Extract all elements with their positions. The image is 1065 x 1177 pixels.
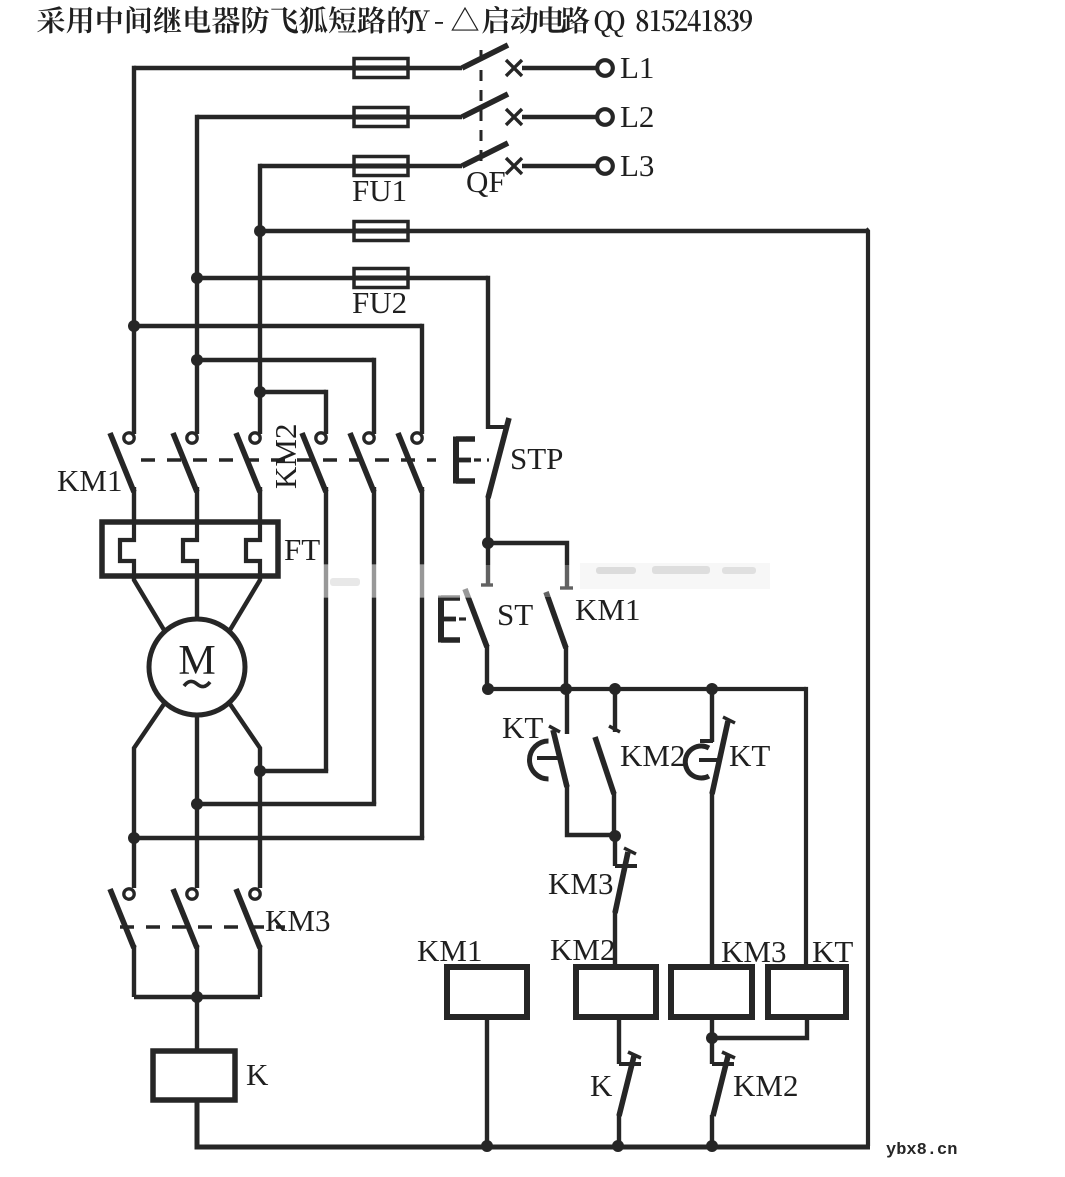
label KM2 rotated (268, 424, 303, 489)
label FU2 (352, 285, 407, 320)
coil KM3 (671, 967, 752, 1017)
contact KM1 aux (546, 588, 573, 689)
wire motor to left leg (134, 704, 164, 888)
label STP (510, 441, 563, 476)
svg-text:KM2: KM2 (620, 738, 685, 773)
label ST (497, 597, 533, 632)
terminal circle L3 (597, 158, 613, 174)
contactor KM1 main contact pole 1 (110, 433, 134, 524)
contact row linkage dashed line (141, 458, 436, 461)
svg-text:FU2: FU2 (352, 285, 407, 320)
svg-text:ybx8.cn: ybx8.cn (886, 1141, 957, 1160)
thermal relay FT heater element pole 1 (120, 524, 134, 578)
node junction right leg y771 (254, 765, 266, 777)
wire row5 to control drop (197, 276, 488, 429)
label L3 (620, 148, 654, 183)
fuse FU1 pole 3 (354, 157, 408, 176)
wire to relay K coil (195, 997, 199, 1051)
wire KT coil down (712, 1017, 807, 1038)
label K NC (590, 1068, 613, 1103)
contactor KM3 contact pole 2 (173, 889, 197, 997)
node bottom bus KM1 (481, 1140, 493, 1152)
thermal relay FT heater element pole 3 (246, 524, 260, 578)
label KM2 aux (620, 738, 685, 773)
relay K coil (153, 1051, 235, 1100)
terminal circle L1 (597, 60, 613, 76)
svg-text:KM3: KM3 (265, 903, 330, 938)
contactor KM3 contact pole 3 (236, 889, 260, 997)
label KT right (729, 738, 770, 773)
wire jumper y804 (197, 802, 376, 806)
breaker QF linkage dashed line (480, 50, 483, 162)
label FU1 (352, 173, 407, 208)
svg-text:L3: L3 (620, 148, 654, 183)
thermal relay FT heater element pole 2 (183, 524, 197, 578)
svg-text:STP: STP (510, 441, 563, 476)
node bus at KM1 aux (560, 683, 572, 695)
wire FT to motor middle (195, 576, 199, 620)
wire K coil to bottom bus (197, 1100, 870, 1147)
node junction left leg y838 (128, 832, 140, 844)
pushbutton ST (441, 585, 493, 689)
node junction row8 on L3 column (254, 386, 266, 398)
wire KM2 pole3 drop (420, 487, 424, 838)
svg-text:QF: QF (466, 164, 506, 199)
node bottom bus KM2NC (706, 1140, 718, 1152)
svg-text:KM2: KM2 (550, 932, 615, 967)
label FT (284, 532, 320, 567)
fuse FU1 pole 2 (354, 108, 408, 127)
motor M circle (149, 619, 245, 715)
breaker QF cross mark pole 1 (506, 60, 596, 76)
contactor KM1 main contact pole 2 (173, 433, 197, 524)
node junction KM3 merge (191, 991, 203, 1003)
label KT coil (812, 934, 853, 969)
wire STP node to ST (486, 543, 490, 585)
title text (37, 6, 752, 37)
svg-text:K: K (246, 1057, 269, 1092)
pushbutton STP (456, 418, 509, 498)
coil KM1 (447, 967, 527, 1017)
label KM3 coil (721, 934, 786, 969)
label KM2 NC (733, 1068, 798, 1103)
wire row4 to right bus (260, 229, 868, 233)
node junction row6 on L1 column (128, 320, 140, 332)
label motor tilde (184, 681, 210, 686)
svg-text:KM1: KM1 (57, 463, 122, 498)
label KT left (502, 710, 543, 745)
label KM1 (57, 463, 122, 498)
wire KM2 pole1 drop (324, 487, 328, 771)
contactor KM2 main contact pole 2 (350, 433, 374, 492)
wire row8 to KM2 pole1 (260, 390, 326, 434)
wire jumper y838 (134, 836, 424, 840)
svg-text:KM3: KM3 (721, 934, 786, 969)
contact K NC below KM2 coil (619, 1017, 641, 1146)
label KM3 main (265, 903, 330, 938)
wire jumper y771 (260, 769, 328, 773)
svg-text:KM1: KM1 (575, 592, 640, 627)
svg-text:KT: KT (812, 934, 853, 969)
wire branch to KM1 aux (488, 543, 567, 589)
wire KM2 pole2 drop (372, 487, 376, 804)
wire row7 to KM2 pole2 (197, 358, 374, 434)
svg-text:K: K (590, 1068, 613, 1103)
label L2 (620, 99, 654, 134)
contactor KM2 main contact pole 1 (302, 433, 326, 492)
node junction row7 on L2 column (191, 354, 203, 366)
breaker QF cross mark pole 2 (506, 109, 596, 125)
coil KM2 (576, 967, 656, 1017)
node bus at KM1 coil drop (482, 683, 494, 695)
contact KM2 NC below (712, 1038, 735, 1146)
contact KM3 NC (615, 836, 637, 969)
node junction on L3 column feeding row4 (254, 225, 266, 237)
node junction KM3/KT bottoms (706, 1032, 718, 1044)
contactor KM3 contact pole 1 (110, 889, 134, 997)
label L1 (620, 50, 654, 85)
label M (178, 638, 215, 684)
breaker QF blade pole 2 (462, 94, 508, 117)
terminal circle L2 (597, 109, 613, 125)
KM3 linkage dashed line (120, 925, 285, 928)
label KM2 coil (550, 932, 615, 967)
label K coil (246, 1057, 269, 1092)
breaker QF cross mark pole 3 (506, 158, 596, 174)
svg-text:L2: L2 (620, 99, 654, 134)
wire phase L3 row (260, 164, 462, 434)
svg-text:KM2: KM2 (268, 424, 303, 489)
node bottom bus K (612, 1140, 624, 1152)
wire bus corner to KT coil (804, 689, 806, 969)
svg-text:KM2: KM2 (733, 1068, 798, 1103)
svg-text:KM1: KM1 (417, 933, 482, 968)
svg-text:KT: KT (502, 710, 543, 745)
contact KT NC delayed open (685, 689, 735, 969)
contact KT delayed close (530, 689, 616, 835)
breaker QF blade pole 3 (462, 143, 508, 166)
label KM1 coil (417, 933, 482, 968)
node junction middle leg y804 (191, 798, 203, 810)
wire motor to right leg (230, 704, 260, 888)
wire row6 to KM2 pole3 (134, 324, 422, 434)
node junction KT/KM2 merge (609, 830, 621, 842)
wire KM3 poles merge (134, 995, 260, 999)
wire KM3 coil down (710, 1017, 714, 1039)
breaker QF blade pole 1 (462, 45, 508, 68)
node junction on L2 column feeding row5 (191, 272, 203, 284)
wire right bus (866, 229, 868, 1146)
wire FT to motor right (230, 576, 260, 630)
svg-text:FT: FT (284, 532, 320, 567)
node bus at KT NC branch (706, 683, 718, 695)
node bus at KM2 branch (609, 683, 621, 695)
thermal relay FT box (102, 522, 278, 576)
node junction below STP (482, 537, 494, 549)
label QF (466, 164, 506, 199)
svg-text:FU1: FU1 (352, 173, 407, 208)
contactor KM2 main contact pole 3 (398, 433, 422, 492)
svg-text:ST: ST (497, 597, 533, 632)
wire FT to motor left (134, 576, 164, 630)
contactor KM1 main contact pole 3 (236, 433, 260, 524)
svg-text:KM3: KM3 (548, 866, 613, 901)
coil KT (768, 967, 846, 1017)
fuse FU1 pole 1 (354, 59, 408, 78)
wire control bus (486, 687, 806, 691)
wire motor to middle leg (195, 714, 199, 888)
wire KM1 coil to bus (485, 1017, 489, 1146)
svg-text:KT: KT (729, 738, 770, 773)
wire phase L2 row (197, 115, 462, 434)
svg-text:L1: L1 (620, 50, 654, 85)
fuse FU2 pole 1 (354, 222, 408, 241)
wire phase L1 row (134, 66, 462, 434)
contact KM2 aux (595, 689, 620, 837)
fuse FU2 pole 2 (354, 269, 408, 288)
label KM1 aux (575, 592, 640, 627)
watermark band overlay (316, 563, 772, 598)
svg-text:M: M (178, 638, 215, 684)
watermark ybx8.cn (886, 1141, 957, 1160)
wire STP to node (486, 497, 490, 545)
label KM3 NC (548, 866, 613, 901)
